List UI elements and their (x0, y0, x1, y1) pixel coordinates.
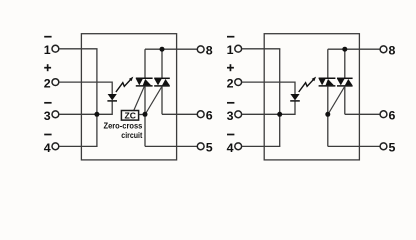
wire pin 2 to LED anode (right device) (242, 82, 295, 94)
wire pin 2 to LED anode corner (59, 82, 112, 94)
triac T1 down triangle (136, 79, 143, 85)
wire pin 4 (59, 145, 98, 147)
triac T1 top vertical (144, 49, 146, 78)
triac T2 top bar (154, 77, 170, 79)
triac T4 top vertical (344, 49, 346, 78)
svg-text:ZC: ZC (124, 110, 135, 120)
minus sign above pin 4 (right device) (227, 134, 234, 136)
svg-text:8: 8 (389, 44, 396, 58)
pin 1 terminal circle (52, 45, 59, 52)
svg-text:4: 4 (227, 141, 234, 155)
junction dot on pin-8 wire (160, 47, 165, 52)
minus sign above pin 4 (44, 134, 51, 136)
wire pin 6 (right device) (345, 113, 380, 115)
common cathode vertical wire (right device) (279, 49, 281, 147)
triac T1 main vertical to pin 5 (144, 86, 146, 146)
pin 3 terminal circle (right device) (235, 111, 242, 118)
triac T4 up triangle (345, 79, 353, 85)
light emission arrow (right device) (299, 80, 314, 92)
pin 3 terminal circle (52, 111, 59, 118)
wire pin 5 (145, 145, 197, 147)
common cathode vertical wire (pins 1-3-4) (96, 49, 98, 147)
triac T2 gate diagonal to junction (145, 86, 162, 114)
triac T4 gate diagonal to junction (right device) (328, 86, 345, 114)
svg-text:4: 4 (44, 141, 51, 155)
plus sign above pin 2 (44, 67, 51, 69)
svg-text:3: 3 (227, 109, 234, 123)
pin 4 terminal circle (right device) (235, 143, 242, 150)
pin 2 terminal circle (52, 79, 59, 86)
minus sign above pin 1 (44, 36, 51, 38)
triac T4 down triangle (337, 79, 344, 85)
junction dot gate node (right device) (325, 112, 330, 117)
svg-text:circuit: circuit (121, 130, 142, 140)
triac T3 top bar (319, 77, 336, 79)
pin 1 terminal circle (right device) (235, 45, 242, 52)
svg-text:8: 8 (206, 44, 213, 58)
triac T4 bottom bar (337, 85, 353, 87)
wire pin 6 (162, 113, 197, 115)
triac T4 main vertical (right device) (344, 86, 346, 114)
triac T2 up triangle (162, 79, 170, 85)
wire pin 8 horizontal (right device) (328, 48, 380, 50)
LED D2 cathode bar (right device) (290, 100, 300, 102)
triac T3 main vertical to pin 5 (right device) (327, 86, 329, 146)
junction dot gate node (143, 112, 148, 117)
ZC zero-cross box (121, 111, 138, 121)
wire ZC box to gate junction (139, 114, 145, 116)
svg-text:1: 1 (227, 43, 234, 57)
junction dot pins 1-3-4 (94, 112, 99, 117)
minus sign above pin 3 (right device) (227, 102, 234, 104)
wire pin 8 horizontal (145, 48, 197, 50)
triac T1 up triangle (143, 79, 152, 85)
svg-text:1: 1 (44, 43, 51, 57)
LED D2 triangle (right device) (290, 94, 299, 100)
minus sign above pin 3 (44, 102, 51, 104)
outer package box (left device) (81, 34, 176, 160)
LED D1 triangle (anode) (108, 94, 117, 100)
wire pin 5 (right device) (328, 145, 380, 147)
triac T3 down triangle (319, 79, 326, 85)
wire pin 1 to internal vertical (59, 48, 98, 50)
triac T1 top bar (136, 77, 153, 79)
wire pin 1 (right device) (242, 48, 281, 50)
svg-text:5: 5 (206, 141, 213, 155)
pin 8 terminal circle (right device) (380, 46, 387, 53)
triac T2 bottom bar (154, 85, 170, 87)
pin 4 terminal circle (52, 143, 59, 150)
pin 8 terminal circle (197, 46, 204, 53)
triac T4 top bar (337, 77, 353, 79)
svg-text:6: 6 (389, 109, 396, 123)
triac T2 down triangle (154, 79, 161, 85)
svg-text:6: 6 (206, 109, 213, 123)
svg-text:5: 5 (389, 141, 396, 155)
wire pin 3 to LED cathode corner (59, 101, 112, 115)
pin 6 terminal circle (right device) (380, 111, 387, 118)
minus sign above pin 1 (right device) (227, 36, 234, 38)
plus sign above pin 2 (right device) (227, 67, 234, 69)
junction dot on pin-8 wire (right device) (342, 47, 347, 52)
wire pin 3 to LED cathode corner (right device) (242, 101, 295, 115)
LED D1 cathode bar (107, 100, 117, 102)
wire pin 4 (right device) (242, 145, 281, 147)
pin 5 terminal circle (197, 143, 204, 150)
triac T1 bottom bar (136, 85, 153, 87)
junction dot pins 1-3-4 (right device) (277, 112, 282, 117)
triac T3 up triangle (326, 79, 335, 85)
svg-text:2: 2 (227, 77, 234, 91)
triac T2 top vertical (161, 49, 163, 78)
triac T3 top vertical (327, 49, 329, 78)
triac T2 main vertical (161, 86, 163, 114)
outer package box (right device) (264, 34, 359, 160)
pin 5 terminal circle (right device) (380, 143, 387, 150)
svg-text:2: 2 (44, 77, 51, 91)
pin 2 terminal circle (right device) (235, 79, 242, 86)
triac T3 bottom bar (319, 85, 336, 87)
triac T1 gate diagonal into ZC box (134, 86, 145, 110)
pin 6 terminal circle (197, 111, 204, 118)
svg-text:3: 3 (44, 109, 51, 123)
light emission arrow (116, 80, 130, 92)
